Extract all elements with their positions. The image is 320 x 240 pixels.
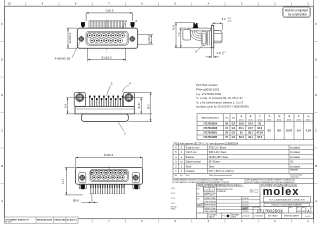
svg-text:F1060-138 / Steel: F1060-138 / Steel: [209, 156, 229, 159]
parts list footer row: [173, 172, 314, 174]
svg-text:G2: G2: [232, 127, 236, 130]
svg-text:24.02.06: 24.02.06: [242, 201, 248, 203]
mounting hole right: [129, 36, 136, 43]
svg-text:10.67: 10.67: [137, 102, 141, 109]
svg-text:P1 x: P1 x: [197, 193, 200, 195]
ear tab left + rivet bottom (black): [79, 184, 86, 189]
svg-text:58 / Brass: 58 / Brass: [209, 161, 221, 164]
svg-text:by exemption: by exemption: [288, 13, 307, 17]
RoHS compliance box: [283, 7, 311, 18]
svg-text:1 of 1: 1 of 1: [305, 216, 311, 218]
revision marks (left of title block): [171, 187, 175, 205]
contact boot: [201, 31, 207, 45]
D-shell inner: [87, 33, 127, 45]
shell rear band: [75, 107, 134, 114]
terminal comb above body: [89, 21, 125, 28]
centerline bottom: [106, 46, 108, 53]
svg-text:33.3: 33.3: [257, 127, 262, 130]
rivet on top (black): [193, 23, 198, 28]
svg-text:G2: G2: [232, 132, 236, 135]
svg-text:B: B: [315, 164, 317, 168]
svg-text:36.1: 36.1: [239, 127, 244, 130]
svg-text:P1 ◊: P1 ◊: [171, 187, 175, 190]
dim 12.5±0.4 left: [67, 28, 78, 48]
document status mini cell (dark): [197, 203, 205, 208]
svg-text:Signal contact: Signal contact: [186, 161, 202, 164]
svg-text:Clinch nut: Clinch nut: [186, 151, 197, 154]
frame: left margin line: [4, 0, 6, 224]
clinch nut right: [132, 173, 139, 183]
D-shell barrel: [214, 31, 222, 43]
svg-text:*C: *C: [268, 116, 271, 118]
svg-text:C±0.5: C±0.5: [106, 9, 114, 13]
svg-text:Bracket: Bracket: [186, 156, 195, 159]
svg-text:1717001668: 1717001668: [203, 127, 218, 130]
svg-text:Snap-in rivet: Snap-in rivet: [186, 146, 200, 149]
svg-text:9.4: 9.4: [63, 104, 67, 108]
snap-in rivet left (black): [81, 22, 85, 27]
shell rear wall: [208, 31, 210, 46]
dim 7.3 inner left: [179, 28, 189, 48]
svg-text:CHKD H.WEISS: CHKD H.WEISS: [204, 211, 216, 213]
bottom-left document status strip: [5, 217, 79, 224]
bottom status band: [208, 213, 302, 219]
svg-text:7.3: 7.3: [177, 32, 181, 36]
svg-text:A: A: [1, 199, 3, 203]
D-shell outer: [90, 169, 128, 181]
svg-text:49.1: 49.1: [248, 136, 253, 139]
svg-text:69.3: 69.3: [239, 136, 244, 139]
svg-text:SER: SER: [289, 207, 292, 209]
svg-text:(contact cycle for G1/G2/G3 =: (contact cycle for G1/G2/G3 = 500/200/50…: [196, 105, 249, 109]
document number row: [241, 207, 314, 213]
svg-text:9.4: 9.4: [297, 129, 301, 132]
svg-text:natural: natural: [290, 169, 298, 172]
svg-text:PCT D-SUB MINIATURE CONNECTOR: PCT D-SUB MINIATURE CONNECTOR: [269, 198, 305, 201]
svg-text:[mm]: [mm]: [249, 119, 253, 121]
dim 10.67 right: [122, 98, 152, 114]
svg-text:8.4±0.4: 8.4±0.4: [104, 153, 114, 157]
dim 8.1±0.2 bottom: [88, 48, 126, 61]
svg-text:10: 10: [8, 2, 11, 6]
svg-text:*Blue Description/material: *Blue Description/material: [209, 174, 233, 177]
svg-text:Ø3: Ø3: [277, 129, 281, 132]
svg-text:tin plated: tin plated: [290, 156, 301, 159]
svg-text:SCALE 5:1: SCALE 5:1: [67, 218, 78, 221]
svg-text:PCT (-50°C to +150°C): PCT (-50°C to +150°C): [209, 170, 234, 173]
svg-text:-0.25: -0.25: [227, 20, 231, 22]
svg-text:Ø0.6: Ø0.6: [73, 198, 79, 202]
svg-text:16.4: 16.4: [248, 122, 253, 125]
svg-text:63.5: 63.5: [257, 136, 262, 139]
svg-text:tin plated: tin plated: [290, 151, 301, 154]
svg-text:2.54: 2.54: [306, 129, 311, 132]
svg-text:A: A: [315, 199, 317, 203]
pcb pins row (tails up): [90, 96, 123, 107]
svg-text:Insulator: Insulator: [186, 170, 196, 173]
legal micro-text band: [174, 179, 295, 184]
svg-text:10.67: 10.67: [286, 129, 293, 132]
mounting flange plate: [211, 26, 213, 48]
tolerance / replacement row: [173, 173, 314, 183]
svg-text:P20 218: P20 218: [171, 207, 177, 209]
svg-text:D: D: [1, 93, 3, 97]
svg-text:P1 ◊: P1 ◊: [171, 202, 175, 205]
svg-text:[mm]: [mm]: [277, 119, 281, 121]
svg-text:10.6: 10.6: [171, 24, 175, 30]
shell front face band: [81, 114, 128, 122]
svg-text:[mm]: [mm]: [239, 119, 243, 121]
svg-text:E: E: [1, 57, 3, 61]
svg-text:tin plated: tin plated: [290, 146, 301, 149]
label 1 (insulator leader): [121, 19, 128, 31]
dim 14.5 far right: [129, 93, 153, 122]
svg-text:Part: Part: [186, 174, 190, 177]
insulator end block: [183, 30, 190, 40]
svg-text:C: C: [315, 128, 317, 132]
svg-text:24.7: 24.7: [248, 127, 253, 130]
svg-text:171700250X: 171700250X: [257, 208, 284, 213]
svg-text:1717002504: 1717002504: [203, 122, 218, 125]
D-shell inner: [91, 170, 127, 180]
drawing title cell: [263, 197, 310, 202]
contacts bottom row (7): [92, 175, 124, 179]
svg-text:47.04: 47.04: [257, 132, 264, 135]
units zone: [197, 184, 218, 188]
svg-text:*D: *D: [278, 116, 281, 118]
svg-text:4-40UNC-2B: 4-40UNC-2B: [55, 56, 71, 60]
svg-text:CHKD H.WEISS: CHKD H.WEISS: [204, 201, 216, 203]
svg-text:4.1±0.2: 4.1±0.2: [147, 34, 151, 43]
svg-text:WM 4-40 / Steel: WM 4-40 / Steel: [209, 151, 227, 154]
contacts top row (8): [88, 33, 125, 37]
svg-text:[mm]: [mm]: [267, 119, 271, 121]
svg-text:REV: REV: [302, 207, 305, 209]
drawn/checked rows: [197, 197, 261, 214]
svg-text:24.02.06: 24.02.06: [242, 205, 248, 207]
status diamond: [226, 214, 229, 217]
svg-text:DOC: DOC: [297, 207, 300, 209]
svg-text:Steel: Steel: [209, 165, 215, 168]
svg-text:P1: P1: [223, 216, 225, 218]
svg-text:24.02.06: 24.02.06: [243, 216, 250, 218]
svg-text:[mm]: [mm]: [297, 119, 301, 121]
svg-text:DOCUMENT: DOCUMENT: [209, 215, 218, 217]
svg-text:B: B: [1, 164, 3, 168]
svg-text:GENERAL MARKET: GENERAL MARKET: [284, 215, 300, 218]
svg-text:12.5±0.4: 12.5±0.4: [68, 32, 72, 43]
bracket ear right: [123, 92, 134, 106]
svg-text:molex: molex: [263, 186, 300, 198]
svg-text:24.02.06: 24.02.06: [242, 211, 248, 213]
svg-text:UNQUOTED: UNQUOTED: [54, 219, 66, 221]
svg-text:PRODUCT CUSTOMER DRAWING: PRODUCT CUSTOMER DRAWING: [272, 204, 303, 207]
svg-text:38.1: 38.1: [248, 132, 253, 135]
svg-text:E: E: [315, 57, 317, 61]
centerline: [106, 20, 108, 30]
svg-text:P1 x: P1 x: [197, 198, 200, 200]
svg-text:C: C: [1, 128, 3, 132]
svg-text:P1 2195: P1 2195: [5, 222, 11, 224]
centerline: [108, 166, 110, 171]
svg-text:G2: G2: [232, 136, 236, 139]
dim C±0.5 top: [86, 12, 133, 21]
dim 9.4 left: [66, 98, 87, 114]
svg-text:14.5: 14.5: [147, 104, 151, 110]
svg-text:[mm]: [mm]: [287, 119, 291, 121]
frame: column numbers top: [8, 2, 309, 6]
svg-text:RELEASE DATE: RELEASE DATE: [37, 218, 53, 221]
label 6 (snap-in rivet leader): [133, 19, 137, 24]
svg-text:G2: G2: [232, 122, 236, 125]
mounting hole left: [78, 36, 85, 43]
projection zone header (dark): [217, 183, 244, 188]
dim 6.3 top right: [213, 22, 223, 30]
svg-text:SEE TABLE: SEE TABLE: [268, 215, 278, 218]
svg-text:30.8: 30.8: [239, 122, 244, 125]
svg-text:11.1: 11.1: [61, 179, 65, 184]
svg-text:24.02.06: 24.02.06: [242, 198, 248, 200]
dim 10.6 left: [175, 23, 212, 48]
svg-text:-0: -0: [222, 54, 224, 56]
svg-text:D: D: [315, 93, 317, 97]
dim 11.1 left: [65, 167, 83, 195]
svg-text:1717002504: 1717002504: [254, 216, 263, 218]
solder tails: [91, 184, 124, 188]
svg-text:P1 ◊: P1 ◊: [171, 197, 175, 200]
svg-text:[mm]: [mm]: [258, 119, 262, 121]
dim 0.8 bottom: [205, 48, 219, 58]
svg-text:mm: mm: [205, 190, 209, 192]
svg-text:PCB 1.6 / Brass: PCB 1.6 / Brass: [209, 146, 227, 149]
svg-text:0.8: 0.8: [217, 51, 221, 55]
frame: grid ticks left: [1, 42, 5, 184]
body outline: [76, 167, 143, 184]
svg-text:NUMBER: NUMBER: [241, 209, 247, 211]
frame: row letters left: [1, 22, 3, 203]
svg-text:P1 ◊: P1 ◊: [171, 192, 175, 195]
svg-text:6.3: 6.3: [222, 17, 226, 21]
dim 8.4±0.4 top: [76, 157, 143, 168]
frame: grid ticks bottom: [92, 219, 291, 223]
svg-text:A: A: [307, 209, 310, 213]
contacts top row (8): [90, 171, 127, 175]
svg-text:1717001685: 1717001685: [203, 136, 218, 139]
frame: grid ticks right: [314, 42, 318, 184]
frame: column numbers bottom: [108, 219, 309, 223]
svg-text:8.1±0.2: 8.1±0.2: [102, 55, 112, 59]
svg-text:Shell: Shell: [186, 165, 192, 168]
bracket ear left: [74, 92, 85, 106]
clinch nut left: [79, 173, 86, 183]
frame: right margin line: [313, 0, 315, 224]
dim Ø0.6 tail: [73, 193, 98, 203]
D-shell outer: [86, 31, 128, 45]
svg-text:Material Number: Material Number: [202, 116, 219, 119]
dim 4.1±0.2 right: [138, 35, 153, 45]
insulator top plate: [189, 28, 212, 31]
svg-text:[mm]: [mm]: [306, 119, 310, 121]
connector body flange: [77, 28, 137, 48]
ear tab right + rivet bottom (black): [133, 184, 140, 189]
frame: grid ticks top: [26, 2, 292, 6]
svg-text:P1 x: P1 x: [197, 188, 200, 190]
svg-text:colour/class: colour/class: [290, 175, 299, 178]
bent terminal elbows: [190, 31, 202, 40]
svg-text:1717002851: 1717002851: [203, 132, 218, 135]
frame: row letters right: [315, 22, 317, 203]
product customer drawing cell: [264, 203, 309, 206]
svg-text:(*): (*): [232, 117, 235, 119]
contacts bottom row (7): [90, 38, 122, 42]
snap-in rivet right (black): [131, 22, 135, 27]
